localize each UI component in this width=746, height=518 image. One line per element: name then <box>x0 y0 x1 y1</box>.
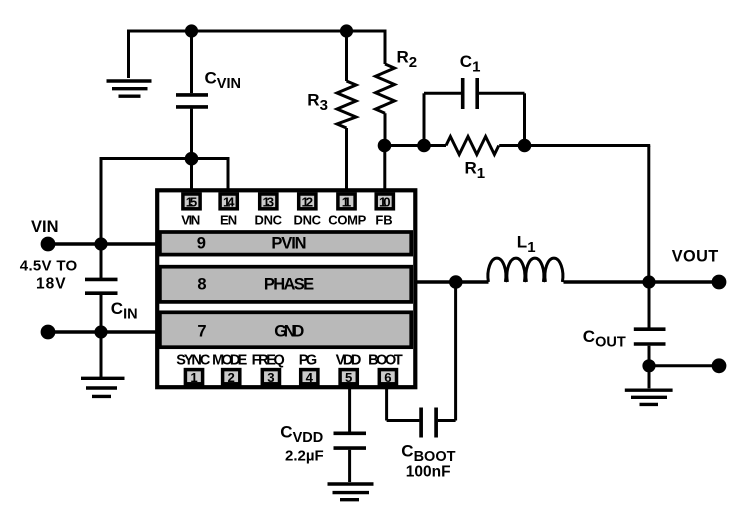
svg-text:4: 4 <box>306 370 314 385</box>
svg-text:DNC: DNC <box>255 212 283 227</box>
svg-text:MODE: MODE <box>212 352 247 368</box>
svg-text:7: 7 <box>197 322 206 340</box>
svg-text:DNC: DNC <box>294 212 322 227</box>
svg-text:4.5V TO: 4.5V TO <box>20 258 78 275</box>
svg-text:2.2µF: 2.2µF <box>285 448 324 465</box>
svg-text:PVIN: PVIN <box>271 234 306 252</box>
svg-text:GND: GND <box>274 322 304 340</box>
svg-text:10: 10 <box>379 194 391 209</box>
svg-text:PHASE: PHASE <box>264 276 314 294</box>
svg-text:11: 11 <box>342 194 352 209</box>
svg-text:VIN: VIN <box>181 212 200 227</box>
svg-text:SYNC: SYNC <box>176 352 211 368</box>
svg-text:EN: EN <box>220 212 237 227</box>
svg-text:3: 3 <box>267 370 274 385</box>
svg-text:14: 14 <box>223 194 235 209</box>
svg-text:13: 13 <box>263 194 275 209</box>
svg-text:BOOT: BOOT <box>368 352 403 368</box>
svg-text:VOUT: VOUT <box>672 247 719 265</box>
svg-text:FREQ: FREQ <box>252 352 285 368</box>
svg-text:15: 15 <box>186 194 198 209</box>
svg-text:FB: FB <box>375 212 392 227</box>
svg-text:5: 5 <box>345 370 352 385</box>
svg-text:1: 1 <box>190 370 197 385</box>
svg-text:12: 12 <box>302 194 314 209</box>
svg-text:COMP: COMP <box>328 212 366 227</box>
svg-text:VDD: VDD <box>336 352 362 368</box>
svg-text:2: 2 <box>228 370 235 385</box>
svg-text:9: 9 <box>197 234 206 252</box>
svg-text:100nF: 100nF <box>406 464 451 481</box>
svg-text:VIN: VIN <box>31 218 59 236</box>
svg-text:18V: 18V <box>36 276 67 293</box>
svg-text:8: 8 <box>197 276 206 294</box>
svg-text:PG: PG <box>299 352 317 368</box>
svg-text:6: 6 <box>384 370 391 385</box>
